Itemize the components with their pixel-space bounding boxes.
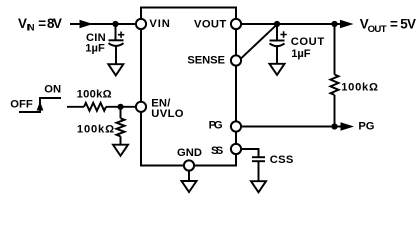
svg-text:100kΩ: 100kΩ [341,82,378,94]
svg-text:= 8V: = 8V [38,16,62,31]
svg-text:SS: SS [211,145,224,157]
svg-text:VOUT: VOUT [194,19,226,31]
svg-text:ON: ON [44,84,61,96]
svg-text:GND: GND [177,147,202,159]
svg-text:IN: IN [27,22,35,33]
svg-text:1µF: 1µF [291,48,310,60]
svg-text:OFF: OFF [10,99,33,111]
svg-text:1µF: 1µF [85,43,105,55]
svg-text:= 5V: = 5V [390,17,416,32]
svg-text:100kΩ: 100kΩ [77,89,112,101]
svg-text:VIN: VIN [149,18,169,30]
svg-text:PG: PG [209,119,223,131]
svg-text:SENSE: SENSE [187,55,225,67]
svg-text:COUT: COUT [291,36,325,48]
svg-text:UVLO: UVLO [151,108,183,120]
svg-text:100kΩ: 100kΩ [77,123,114,135]
svg-text:OUT: OUT [368,24,387,35]
svg-text:CSS: CSS [270,154,294,166]
svg-text:PG: PG [358,121,374,133]
